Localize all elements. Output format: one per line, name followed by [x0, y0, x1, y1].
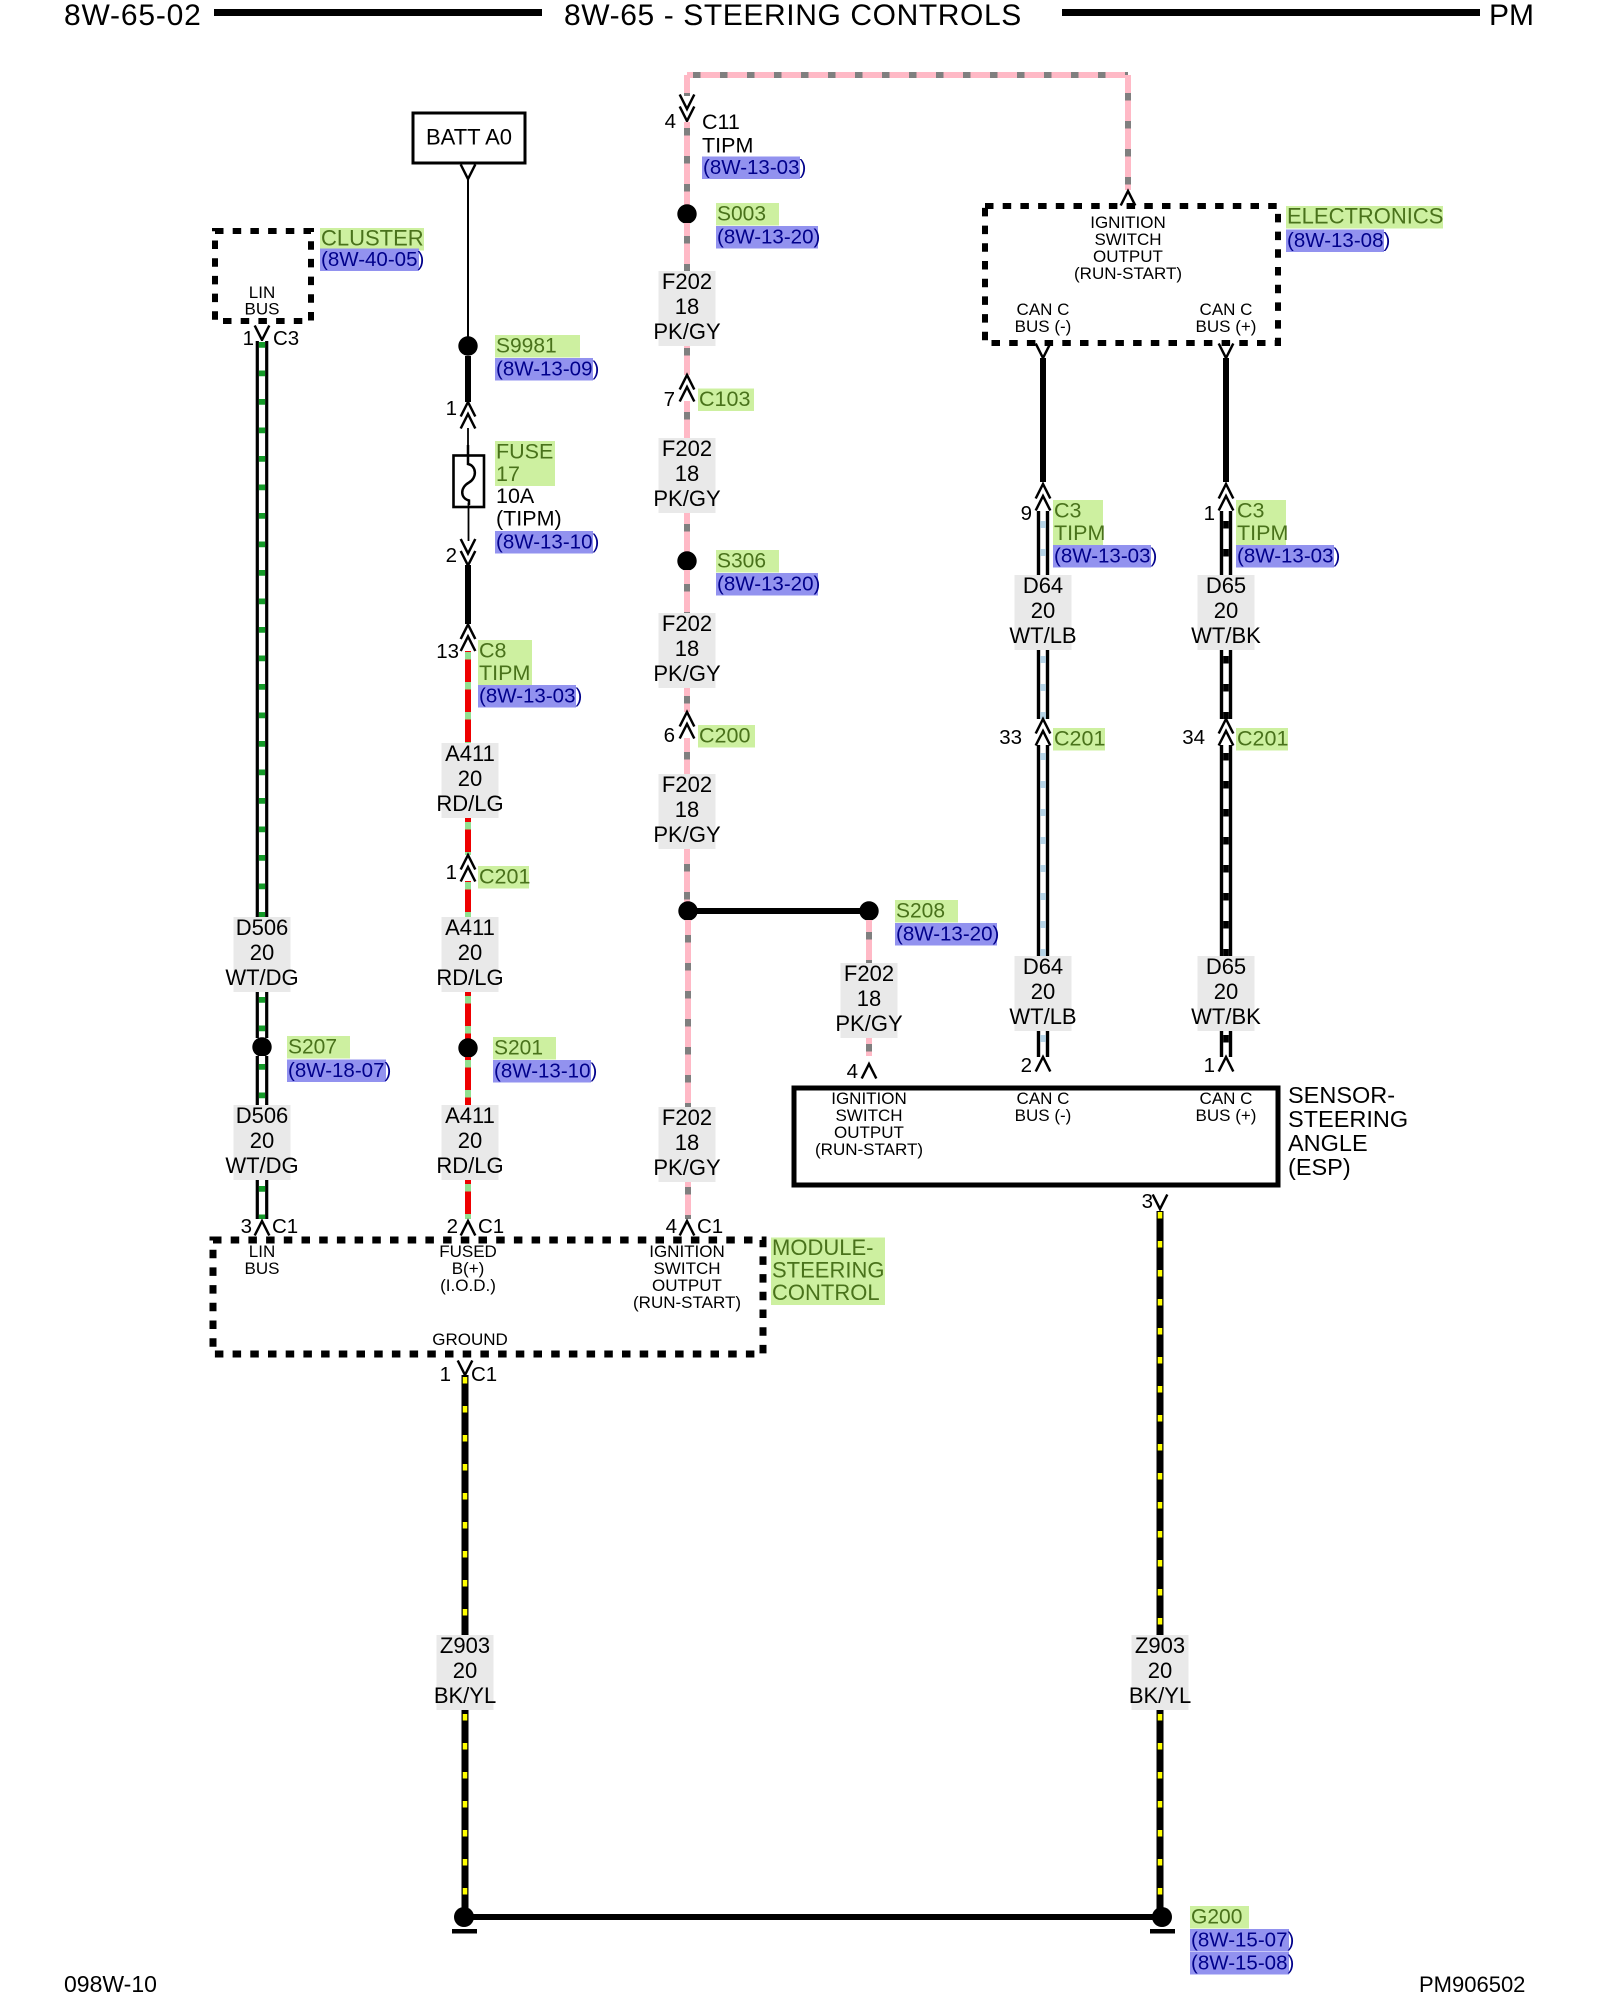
svg-text:(8W-13-10): (8W-13-10): [496, 531, 599, 554]
svg-text:PK/GY: PK/GY: [653, 319, 721, 344]
svg-text:D64: D64: [1023, 573, 1063, 598]
wire A411 RD/LG segment 1: [465, 651, 471, 744]
label ELECTRONICS (8W-13-08): [1286, 204, 1443, 253]
svg-text:F202: F202: [662, 611, 712, 636]
svg-text:(RUN-START): (RUN-START): [1074, 264, 1182, 283]
wire A411 segment 2: [465, 818, 471, 855]
wire battery feed thin segment: [467, 179, 469, 337]
svg-text:D64: D64: [1023, 954, 1063, 979]
wire D64 stub to sensor pin 2: [1037, 1031, 1049, 1057]
wire out of fuse: [468, 503, 470, 541]
svg-text:C103: C103: [699, 387, 750, 411]
svg-text:(8W-13-03): (8W-13-03): [1054, 545, 1157, 568]
connector C201 pin 33: [999, 719, 1050, 749]
connector pin 1 of steering angle sensor: [1204, 1054, 1234, 1077]
svg-text:C1: C1: [478, 1215, 504, 1238]
svg-text:20: 20: [1031, 598, 1055, 623]
label S208 (8W-13-20): [895, 900, 999, 946]
svg-text:(TIPM): (TIPM): [496, 507, 562, 531]
ground G200 bus with junctions: [452, 1907, 1175, 1934]
connector C3 pin 1 at CLUSTER: [243, 326, 300, 351]
svg-text:F202: F202: [662, 772, 712, 797]
wire F202 branch to sensor pin 4: [866, 920, 872, 1056]
splice S207: [252, 1037, 271, 1056]
wire D506 LIN bus segment upper (WT/DG): [256, 341, 269, 917]
svg-text:(8W-15-08): (8W-15-08): [1191, 1952, 1294, 1975]
label C200: [698, 724, 755, 748]
svg-text:20: 20: [458, 1128, 482, 1153]
svg-text:(8W-13-10): (8W-13-10): [494, 1060, 597, 1083]
svg-text:C3: C3: [1237, 499, 1265, 523]
wire into fuse: [467, 428, 469, 448]
module MODULE-STEERING CONTROL dashed box: [213, 1240, 763, 1354]
page footer left 098W-10: [64, 1971, 157, 1997]
svg-text:18: 18: [675, 1130, 699, 1155]
svg-text:C1: C1: [471, 1363, 497, 1386]
svg-text:(8W-13-08): (8W-13-08): [1287, 229, 1390, 252]
svg-text:BUS: BUS: [245, 1259, 280, 1278]
connector C3 pin 1 (TIPM) on D65: [1204, 484, 1234, 525]
label C201 at A411: [478, 865, 530, 889]
svg-text:S9981: S9981: [496, 335, 557, 358]
svg-text:C11: C11: [702, 110, 740, 134]
svg-text:PK/GY: PK/GY: [653, 822, 721, 847]
connector pin 2 of steering angle sensor: [1021, 1054, 1051, 1077]
svg-text:(8W-13-09): (8W-13-09): [496, 358, 599, 381]
svg-text:PK/GY: PK/GY: [653, 1155, 721, 1180]
wire D506 between label and splice: [256, 992, 269, 1038]
wire label D506 20 WT/DG lower: [225, 1103, 298, 1180]
wire F202 from S306 to C200: [684, 570, 690, 712]
svg-text:20: 20: [453, 1658, 477, 1683]
connector CAN C bus plus pin out of electronics: [1219, 344, 1234, 359]
svg-text:F202: F202: [662, 269, 712, 294]
wire label F202 18 PK/GY third: [653, 611, 721, 688]
svg-text:(RUN-START): (RUN-START): [815, 1140, 923, 1159]
label FUSE 17 10A (TIPM) (8W-13-10): [495, 440, 599, 554]
svg-text:BUS (+): BUS (+): [1196, 1106, 1257, 1125]
svg-text:10A: 10A: [496, 484, 535, 508]
svg-text:(8W-40-05): (8W-40-05): [321, 248, 424, 271]
connector C11 pin 4 (TIPM): [665, 95, 695, 134]
svg-text:20: 20: [250, 1128, 274, 1153]
svg-text:(8W-13-03): (8W-13-03): [479, 685, 582, 708]
label C103: [698, 387, 754, 411]
svg-text:ANGLE: ANGLE: [1288, 1130, 1368, 1156]
svg-text:(I.O.D.): (I.O.D.): [440, 1276, 496, 1295]
splice S208 junction bus: [678, 901, 878, 920]
svg-text:1: 1: [1204, 502, 1215, 525]
wire label F202 18 PK/GY fifth: [653, 1105, 721, 1182]
connector pin 3 of steering angle sensor: [1142, 1190, 1168, 1213]
svg-text:20: 20: [1031, 979, 1055, 1004]
wire D64 WT/LB segment 1: [1037, 511, 1049, 575]
svg-text:(8W-13-20): (8W-13-20): [717, 226, 820, 249]
svg-text:7: 7: [664, 388, 675, 411]
label CLUSTER (8W-40-05): [320, 226, 424, 272]
svg-text:2: 2: [446, 544, 457, 567]
svg-text:1: 1: [446, 861, 457, 884]
svg-text:A411: A411: [445, 915, 495, 940]
svg-text:TIPM: TIPM: [1054, 521, 1105, 545]
wire F202 main below S208 to module pin 4: [685, 920, 691, 1219]
svg-text:9: 9: [1021, 502, 1032, 525]
svg-text:BATT A0: BATT A0: [426, 125, 512, 150]
wire CAN C plus solid segment: [1223, 358, 1229, 482]
svg-text:C1: C1: [272, 1215, 298, 1238]
svg-text:20: 20: [250, 940, 274, 965]
wire label D65 20 WT/BK lower: [1191, 954, 1261, 1031]
wire D65 segment 2: [1220, 650, 1232, 719]
svg-text:BUS (-): BUS (-): [1015, 1106, 1072, 1125]
wire D64 segment 3: [1037, 745, 1049, 956]
wire CAN C minus solid segment: [1040, 358, 1046, 482]
svg-text:4: 4: [665, 110, 676, 133]
svg-text:S003: S003: [717, 203, 766, 226]
wire thick segment below S9981: [465, 356, 471, 402]
svg-text:C8: C8: [479, 639, 507, 663]
svg-text:Z903: Z903: [440, 1633, 490, 1658]
module CLUSTER dashed box: [215, 231, 311, 321]
svg-text:(RUN-START): (RUN-START): [633, 1293, 741, 1312]
wire label F202 18 PK/GY fourth: [653, 772, 721, 849]
svg-text:FUSE: FUSE: [496, 440, 553, 464]
svg-text:WT/DG: WT/DG: [225, 965, 298, 990]
wire label F202 18 PK/GY second: [653, 436, 721, 513]
svg-text:4: 4: [666, 1215, 677, 1238]
connector at BATT A0 output: [461, 165, 476, 180]
svg-text:BUS (+): BUS (+): [1196, 317, 1257, 336]
svg-text:WT/LB: WT/LB: [1009, 1004, 1076, 1029]
connector C1 pin 1 ground of steering control module: [440, 1361, 498, 1387]
svg-text:18: 18: [675, 461, 699, 486]
wire label Z903 20 BK/YL right: [1129, 1633, 1191, 1710]
fuse F17 10A symbol: [454, 445, 485, 507]
connector C1 pin 2 of steering control module: [447, 1215, 505, 1238]
svg-text:PK/GY: PK/GY: [835, 1011, 903, 1036]
svg-text:A411: A411: [445, 741, 495, 766]
svg-text:PM906502: PM906502: [1419, 1972, 1525, 1997]
connector C8 pin 13 (TIPM): [436, 625, 475, 664]
svg-text:20: 20: [458, 940, 482, 965]
svg-text:3: 3: [241, 1215, 252, 1238]
svg-text:TIPM: TIPM: [479, 661, 530, 685]
label S207 (8W-18-07): [287, 1036, 391, 1083]
svg-text:(8W-18-07): (8W-18-07): [288, 1059, 391, 1082]
wire label D506 20 WT/DG upper: [225, 915, 298, 992]
connector C201 pin 34: [1182, 719, 1233, 749]
svg-text:ELECTRONICS: ELECTRONICS: [1287, 204, 1443, 229]
svg-text:D65: D65: [1206, 954, 1246, 979]
wire label A411 20 RD/LG second: [436, 915, 503, 992]
svg-text:S207: S207: [288, 1036, 337, 1059]
wire label A411 20 RD/LG first: [436, 741, 503, 818]
wire A411 segment 5: [465, 1057, 471, 1105]
wire D506 lower stub to module pin 3: [256, 1180, 269, 1219]
svg-text:20: 20: [458, 766, 482, 791]
page footer right PM906502: [1419, 1972, 1525, 1997]
wire A411 stub to module pin 2: [465, 1180, 471, 1219]
wire D64 segment 2: [1037, 650, 1049, 719]
wire Z903 BK/YL right segment upper: [1157, 1211, 1164, 1635]
wire F202 from C11 to S003: [684, 122, 690, 205]
label C8 TIPM (8W-13-03): [478, 639, 582, 708]
svg-text:C201: C201: [479, 865, 530, 889]
svg-text:RD/LG: RD/LG: [436, 965, 503, 990]
wire D506 below splice S207: [256, 1056, 269, 1105]
label C3 TIPM (8W-13-03) at D64: [1053, 499, 1157, 568]
module ELECTRONICS dashed box: [985, 206, 1278, 343]
label SENSOR-STEERING ANGLE (ESP): [1288, 1082, 1408, 1180]
svg-text:BK/YL: BK/YL: [1129, 1683, 1191, 1708]
svg-text:WT/LB: WT/LB: [1009, 623, 1076, 648]
svg-text:F202: F202: [662, 1105, 712, 1130]
svg-text:1: 1: [446, 397, 457, 420]
svg-text:WT/BK: WT/BK: [1191, 1004, 1261, 1029]
svg-text:1: 1: [440, 1363, 451, 1386]
svg-text:13: 13: [436, 640, 459, 663]
label C11 TIPM (8W-13-03): [702, 110, 806, 179]
svg-text:S306: S306: [717, 550, 766, 573]
fuse F17 pin 1 connector: [446, 397, 476, 429]
wire A411 segment 4: [465, 992, 471, 1039]
svg-text:34: 34: [1182, 726, 1205, 749]
battery BATT A0 box: [413, 113, 525, 163]
svg-text:17: 17: [496, 462, 520, 486]
wire thick segment to C8: [465, 565, 471, 624]
svg-text:Z903: Z903: [1135, 1633, 1185, 1658]
wire Z903 left segment lower: [462, 1710, 469, 1914]
svg-text:(8W-13-20): (8W-13-20): [717, 573, 820, 596]
svg-text:D65: D65: [1206, 573, 1246, 598]
svg-text:STEERING: STEERING: [772, 1258, 884, 1283]
svg-text:GROUND: GROUND: [432, 1330, 508, 1349]
label S9981 (8W-13-09): [495, 335, 599, 381]
svg-text:2: 2: [447, 1215, 458, 1238]
svg-text:33: 33: [999, 726, 1022, 749]
svg-text:S208: S208: [896, 900, 945, 923]
label S201 (8W-13-10): [493, 1037, 597, 1083]
wire label F202 18 PK/GY branch: [835, 961, 903, 1038]
svg-text:WT/BK: WT/BK: [1191, 623, 1261, 648]
wire label F202 18 PK/GY first: [653, 269, 721, 346]
wire label A411 20 RD/LG third: [436, 1103, 503, 1180]
wire label Z903 20 BK/YL left: [434, 1633, 496, 1710]
wire label D64 20 WT/LB lower: [1009, 954, 1076, 1031]
svg-text:(8W-13-03): (8W-13-03): [703, 156, 806, 179]
wire F202 from C103 to S306: [684, 401, 690, 552]
svg-text:18: 18: [675, 294, 699, 319]
svg-text:PK/GY: PK/GY: [653, 486, 721, 511]
svg-text:F202: F202: [662, 436, 712, 461]
svg-text:C201: C201: [1054, 727, 1105, 751]
svg-text:18: 18: [675, 636, 699, 661]
wire F202 from S003 to C103: [684, 223, 690, 375]
connector C200 pin 6: [664, 712, 695, 747]
label C201 at D65: [1236, 727, 1288, 751]
svg-text:8W-65-02: 8W-65-02: [64, 0, 202, 32]
svg-text:4: 4: [847, 1060, 858, 1083]
svg-text:MODULE-: MODULE-: [772, 1235, 873, 1260]
svg-text:PK/GY: PK/GY: [653, 661, 721, 686]
connector C1 pin 4 of steering control module: [666, 1215, 724, 1238]
svg-text:(8W-13-20): (8W-13-20): [896, 923, 999, 946]
svg-text:RD/LG: RD/LG: [436, 791, 503, 816]
connector C103 pin 7: [664, 375, 695, 411]
connector C1 pin 3 of steering control module: [241, 1215, 299, 1238]
svg-text:3: 3: [1142, 1190, 1153, 1213]
svg-text:6: 6: [664, 724, 675, 747]
splice S201: [458, 1038, 477, 1057]
wire D65 WT/BK segment 1: [1220, 511, 1232, 575]
splice S306: [677, 551, 696, 570]
svg-text:C1: C1: [697, 1215, 723, 1238]
svg-text:TIPM: TIPM: [702, 134, 753, 158]
svg-text:STEERING: STEERING: [1288, 1106, 1408, 1132]
svg-text:BUS: BUS: [245, 300, 280, 319]
wire label D64 20 WT/LB upper: [1009, 573, 1076, 650]
svg-text:G200: G200: [1191, 1906, 1242, 1929]
svg-text:(8W-13-03): (8W-13-03): [1237, 545, 1340, 568]
svg-text:SENSOR-: SENSOR-: [1288, 1082, 1395, 1108]
svg-text:BUS (-): BUS (-): [1015, 317, 1072, 336]
svg-text:S201: S201: [494, 1037, 543, 1060]
svg-text:C3: C3: [273, 327, 299, 350]
wire F202 left elbow stub: [684, 75, 690, 96]
svg-text:C3: C3: [1054, 499, 1082, 523]
svg-text:F202: F202: [844, 961, 894, 986]
svg-text:098W-10: 098W-10: [64, 1971, 157, 1997]
wire F202 from C200 to S208: [684, 738, 690, 902]
svg-text:D506: D506: [236, 1103, 289, 1128]
svg-text:CONTROL: CONTROL: [772, 1280, 880, 1305]
wire Z903 right segment lower: [1157, 1710, 1164, 1914]
svg-text:18: 18: [675, 797, 699, 822]
connector C3 pin 9 (TIPM) on D64: [1021, 484, 1051, 525]
svg-text:20: 20: [1214, 598, 1238, 623]
label S306 (8W-13-20): [716, 550, 820, 596]
svg-text:20: 20: [1214, 979, 1238, 1004]
splice S9981: [458, 336, 477, 355]
svg-text:C200: C200: [699, 724, 750, 748]
svg-text:BK/YL: BK/YL: [434, 1683, 496, 1708]
svg-text:2: 2: [1021, 1054, 1032, 1077]
svg-text:WT/DG: WT/DG: [225, 1153, 298, 1178]
label MODULE-STEERING CONTROL: [771, 1235, 885, 1305]
connector ignition switch output pin into electronics: [1121, 191, 1136, 206]
connector pin 4 of steering angle sensor: [847, 1060, 877, 1083]
label G200 (8W-15-07) (8W-15-08): [1190, 1906, 1294, 1975]
label C201 at D64: [1053, 727, 1105, 751]
svg-text:20: 20: [1148, 1658, 1172, 1683]
svg-text:(8W-15-07): (8W-15-07): [1191, 1929, 1294, 1952]
svg-text:A411: A411: [445, 1103, 495, 1128]
wire F202 top horizontal run: [687, 72, 1128, 78]
label C3 TIPM (8W-13-03) at D65: [1236, 499, 1340, 568]
svg-text:18: 18: [857, 986, 881, 1011]
wire A411 segment 3: [465, 881, 471, 917]
svg-text:PM: PM: [1489, 0, 1534, 32]
svg-text:CLUSTER: CLUSTER: [321, 226, 424, 251]
svg-text:1: 1: [243, 327, 254, 350]
wire D65 segment 3: [1220, 745, 1232, 956]
label S003 (8W-13-20): [716, 203, 820, 249]
component SENSOR-STEERING ANGLE (ESP) box: [794, 1088, 1278, 1185]
svg-text:RD/LG: RD/LG: [436, 1153, 503, 1178]
wire label D65 20 WT/BK upper: [1191, 573, 1261, 650]
connector C201 pin 1: [446, 855, 476, 884]
connector CAN C bus minus pin out of electronics: [1036, 344, 1051, 359]
wire F202 right elbow down to electronics: [1125, 75, 1131, 190]
page header title block: [64, 0, 1534, 32]
svg-text:C201: C201: [1237, 727, 1288, 751]
wire Z903 BK/YL left segment upper: [462, 1375, 469, 1635]
wire D65 stub to sensor pin 1: [1220, 1031, 1232, 1057]
svg-text:TIPM: TIPM: [1237, 521, 1288, 545]
svg-text:(ESP): (ESP): [1288, 1154, 1351, 1180]
fuse F17 pin 2 connector: [446, 539, 476, 567]
svg-text:8W-65 - STEERING CONTROLS: 8W-65 - STEERING CONTROLS: [564, 0, 1022, 32]
svg-text:1: 1: [1204, 1054, 1215, 1077]
splice S003: [677, 204, 696, 223]
svg-text:D506: D506: [236, 915, 289, 940]
